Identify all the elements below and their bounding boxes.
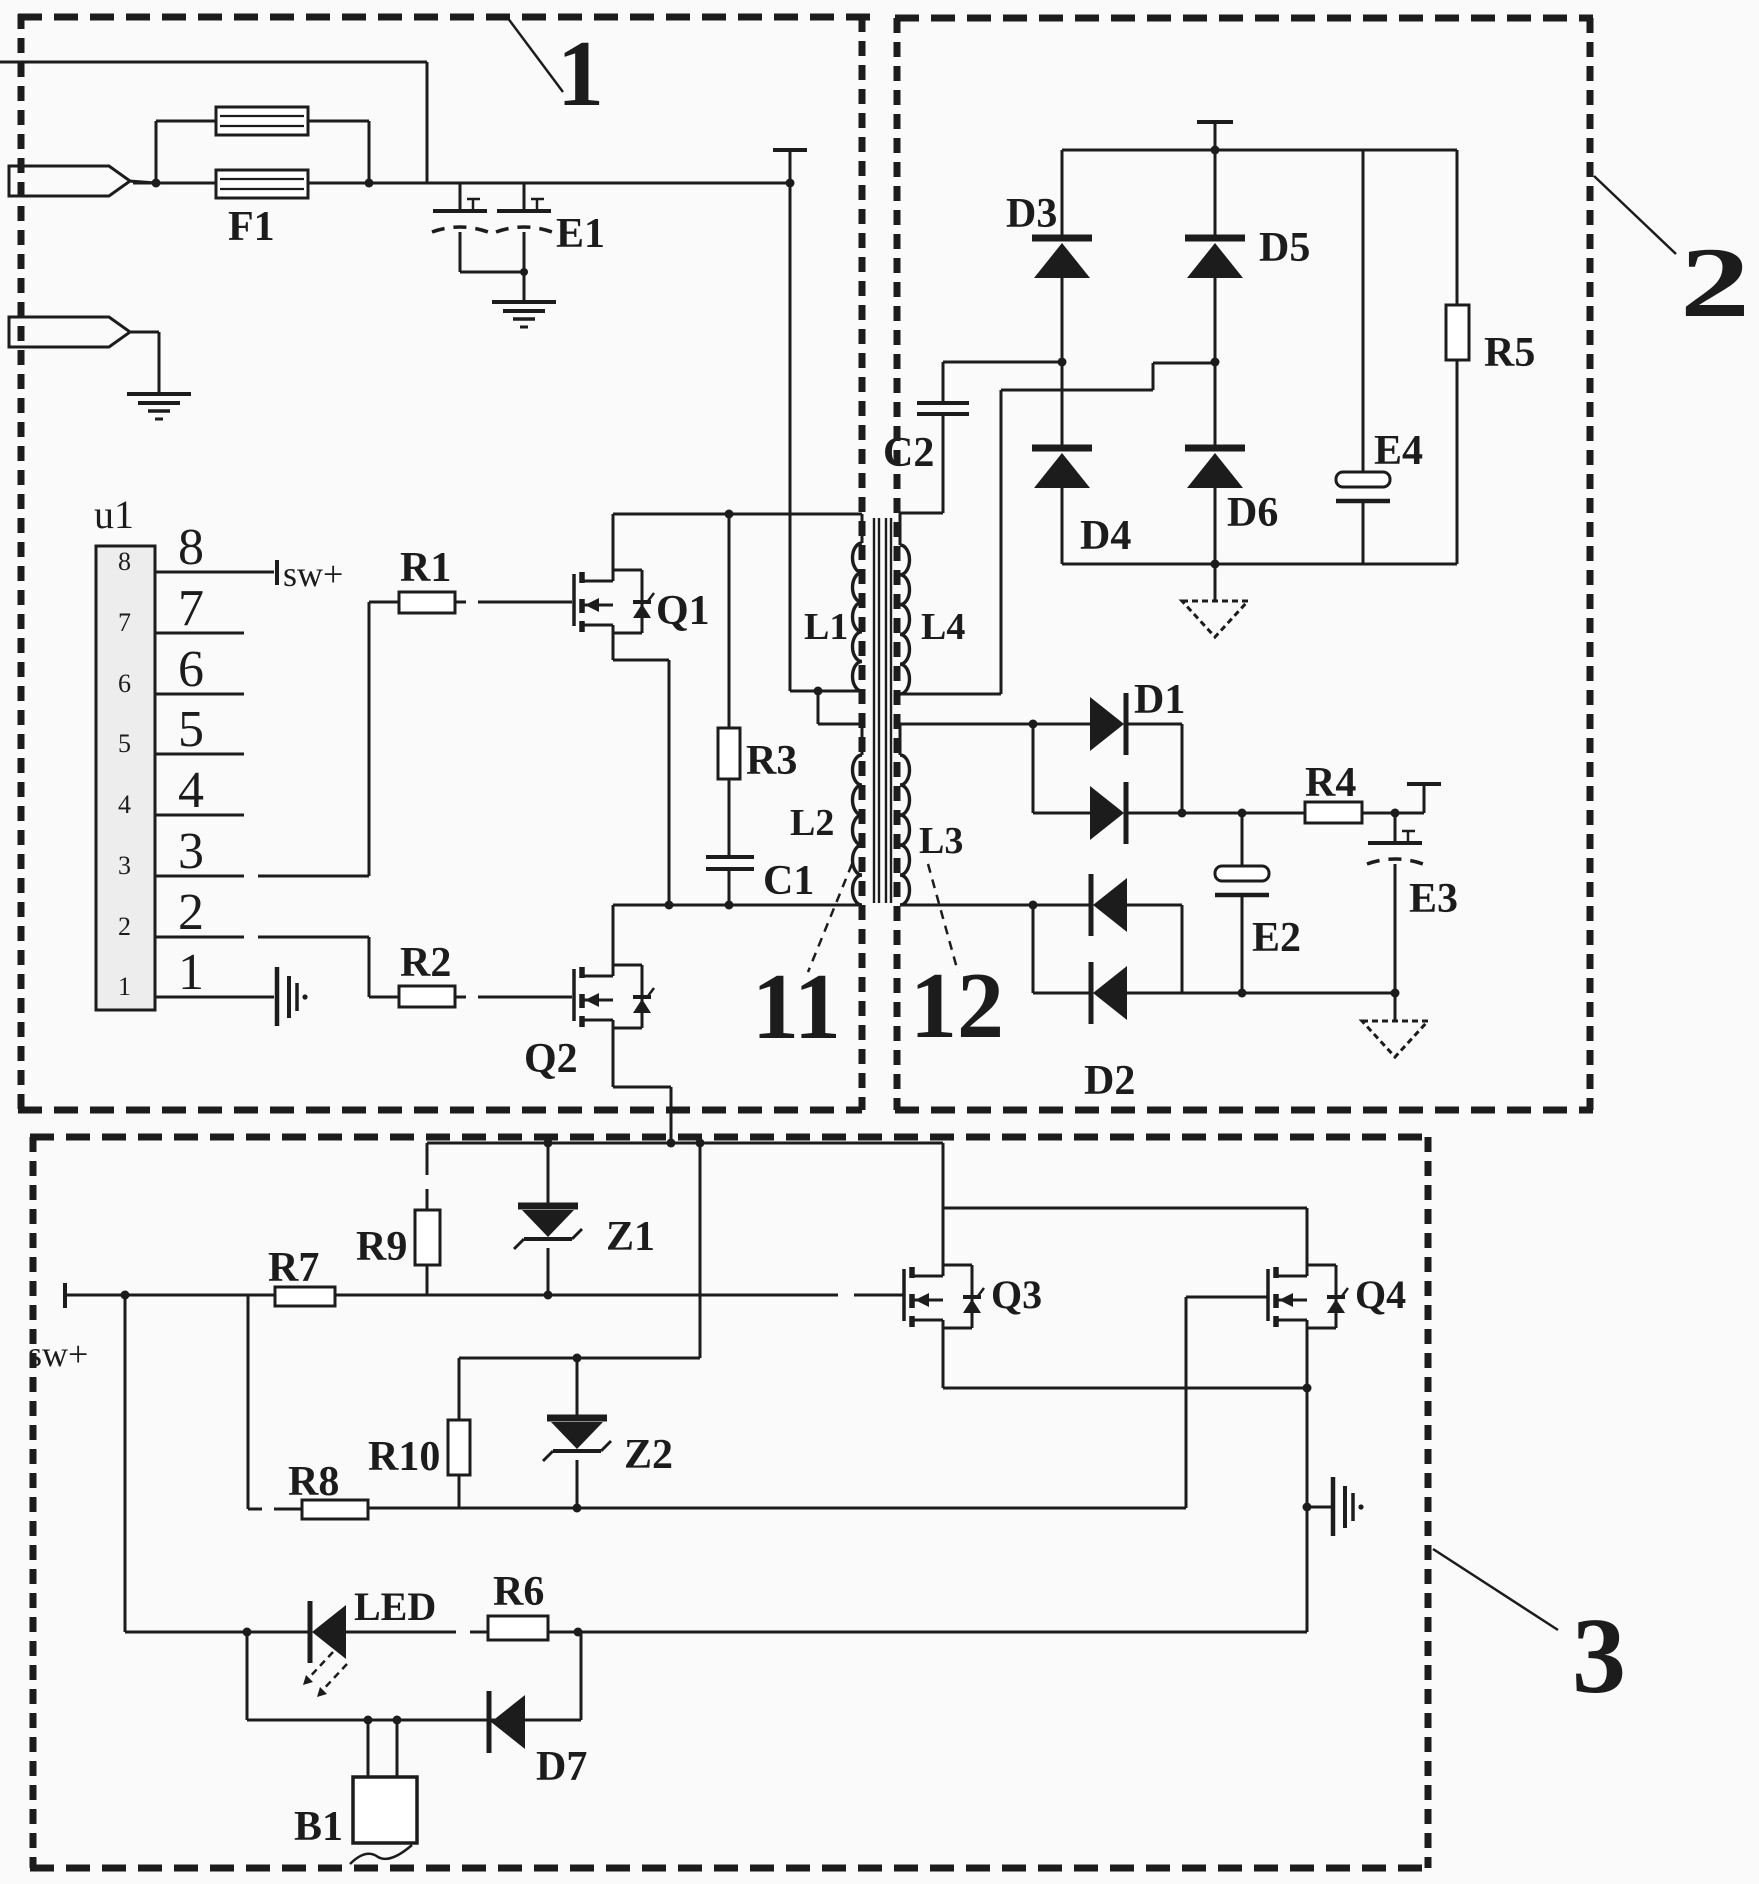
wire branch down to Z2 rail [699,1143,702,1358]
label E4 [1374,428,1423,474]
node C1 junction on midpoint rail [725,901,734,910]
wire Q2 source to box 3 [613,1020,671,1143]
svg-text:3: 3 [118,851,131,880]
diode D1 lower element [1033,782,1182,844]
label 12 with leader [910,864,1004,1058]
wire C2 to D3-D4 midpoint [943,361,1062,364]
wire secondary return rail [1182,992,1395,995]
svg-text:L3: L3 [919,820,963,862]
capacitor E2 filter electrolytic [1215,813,1269,993]
resistor R1 [369,592,572,613]
node B1 right lead junction [393,1716,402,1725]
inductor L2 primary lower winding [853,724,863,905]
battery B1 leads [368,1720,397,1777]
pin number 7 outside [178,580,204,637]
svg-text:R5: R5 [1484,330,1535,376]
svg-text:Q2: Q2 [524,1036,578,1082]
label D5 [1259,225,1310,271]
transistor Q2 MOSFET [574,965,654,1028]
frame box 2 (secondary rectifier) dashed border [895,18,1593,1110]
inductor L3 secondary lower winding [900,724,910,905]
terminal T secondary output terminal [1197,122,1233,150]
pin number 2 inside IC [118,912,131,941]
svg-text:12: 12 [910,954,1004,1058]
wire sw+ rail to R7 [65,1294,275,1297]
wire D7 loop left vertical [246,1632,249,1720]
wire R6 output rail to Q4 source [548,1631,1307,1634]
label C1 [763,858,814,904]
svg-text:5: 5 [178,701,204,758]
wire fuse parallel branch [156,121,369,183]
connector AC input neutral [9,317,159,394]
node B1 left lead junction [364,1716,373,1725]
fuse F1 lower element [216,170,308,198]
svg-text:D7: D7 [536,1744,587,1790]
node E3 bottom junction [1391,989,1400,998]
pin number 6 inside IC [118,669,131,698]
svg-text:R10: R10 [368,1434,440,1480]
wire node-A to Q3/Q4 drain rail [943,1143,1307,1208]
pin number 4 outside [178,762,204,819]
label R6 [493,1569,544,1615]
fuse F1 upper element [216,107,308,135]
node Z2 top junction [573,1354,582,1363]
ground open triangle ground below D6 [1182,564,1248,637]
svg-text:D6: D6 [1227,490,1278,536]
node D3-D4 midpoint [1058,358,1067,367]
LED indicator diode [310,1601,346,1663]
label R8 [288,1459,339,1505]
svg-text:F1: F1 [228,204,275,250]
svg-text:R7: R7 [268,1245,319,1291]
wire D1 branch verticals [1033,724,1182,813]
node ground tap junction [1303,1503,1312,1512]
node D1 input junction [1029,720,1038,729]
node D7 return junction [574,1628,583,1637]
node D2 input junction [1029,901,1038,910]
svg-text:6: 6 [178,641,204,698]
wire L4 bottom to D5 midpoint [900,363,1215,694]
frame box 1 (primary power stage) dashed border [18,14,870,1110]
resistor R3 snubber [718,514,740,857]
diode D7 [489,1691,525,1753]
label Q4 [1355,1272,1406,1317]
node E3 top junction [1391,809,1400,818]
wire Q1 source to midpoint [613,625,669,905]
wire U1 pin 6 lead [155,693,244,696]
capacitor C2 coupling [900,362,969,513]
svg-text:sw+: sw+ [28,1334,88,1374]
ground open triangle ground at secondary return [1362,993,1428,1057]
svg-text:2: 2 [178,884,204,941]
wire L3 bottom lead [900,904,1033,907]
wire secondary top rail [1062,149,1457,152]
svg-text:R1: R1 [400,545,451,591]
label LED [354,1584,436,1629]
inductor L1 primary upper winding [853,514,863,691]
LED light emission arrows [303,1652,347,1697]
svg-text:2: 2 [1680,227,1750,338]
svg-text:1: 1 [557,22,604,126]
label R7 [268,1245,319,1291]
wire U1 pin 5 lead [155,753,244,756]
label L1 [804,606,848,648]
node branch junction to Z2 rail [696,1139,705,1148]
svg-text:E3: E3 [1409,876,1458,922]
node Q1 source junction on midpoint rail [665,901,674,910]
label R4 [1305,760,1356,806]
wire Q1 drain to primary top rail [613,514,862,581]
svg-text:R2: R2 [400,940,451,986]
wire LED to R6 [346,1631,488,1634]
ground signal ground at pin 1 [277,967,308,1026]
label D4 [1080,513,1131,559]
label sw+ (box 3) [28,1334,88,1374]
resistor R5 bleeder [1446,150,1469,564]
frame box 3 (battery charge circuit) dashed border [30,1137,1431,1868]
ground earth ground at neutral input [127,394,191,419]
wire U1 pin 2 lead to R2 [155,937,369,997]
wire LED branch vertical [124,1295,127,1632]
svg-text:8: 8 [118,547,131,576]
pin number 3 outside [178,823,204,880]
label E1 [556,211,605,257]
label E3 [1409,876,1458,922]
diode D2 upper element [1033,874,1182,936]
resistor R7 [275,1287,335,1306]
node LED branch junction [121,1291,130,1300]
wire L1 bottom / center tap [790,690,862,693]
svg-text:D3: D3 [1006,191,1057,237]
label 3 with leader [1433,1549,1626,1716]
svg-text:L2: L2 [790,802,834,844]
resistor R6 [488,1616,548,1640]
wire secondary bottom rail [1062,563,1457,566]
svg-text:R3: R3 [746,738,797,784]
svg-text:Z2: Z2 [624,1432,673,1478]
zener diode Z2 [543,1358,611,1508]
diode D6 [1185,362,1245,564]
node Z1 top junction [544,1139,553,1148]
pin number 1 inside IC [118,972,131,1001]
battery B1 bottom lead squiggle [350,1845,412,1864]
transistor Q1 MOSFET [574,570,654,633]
pin number 3 inside IC [118,851,131,880]
svg-text:D1: D1 [1134,677,1185,723]
transformer core [874,518,891,903]
svg-text:C1: C1 [763,858,814,904]
capacitor E1 first electrolytic [432,183,488,272]
terminal sw+ at pin 8 [275,560,279,585]
svg-text:L4: L4 [921,606,965,648]
resistor R8 [248,1500,368,1519]
terminal sw+ battery positive [63,1283,67,1308]
capacitor E3 electrolytic [1367,813,1423,993]
node fuse merge junction [365,179,374,188]
svg-text:D5: D5 [1259,225,1310,271]
wire midpoint rail [613,904,862,907]
pin number 5 inside IC [118,729,131,758]
pin number 5 outside [178,701,204,758]
inductor L4 secondary upper winding [900,513,910,694]
svg-text:7: 7 [178,580,204,637]
label Q2 [524,1036,578,1082]
diode D4 [1032,362,1092,564]
node D5-D6 midpoint [1211,358,1220,367]
resistor R10 [448,1358,470,1508]
svg-text:5: 5 [118,729,131,758]
terminal T at R4 output [1395,784,1441,813]
wire top-left bus [0,62,427,183]
label E2 [1252,915,1301,961]
pin number 6 outside [178,641,204,698]
label D6 [1227,490,1278,536]
node terminal junction on top rail [1211,146,1220,155]
label R10 [368,1434,440,1480]
diode D5 [1185,150,1245,362]
svg-text:R8: R8 [288,1459,339,1505]
svg-text:D4: D4 [1080,513,1131,559]
svg-text:u1: u1 [94,492,134,537]
svg-text:sw+: sw+ [283,554,343,594]
node fuse split junction [152,179,161,188]
wire D7 loop right vertical [580,1632,583,1720]
svg-text:E4: E4 [1374,428,1423,474]
resistor R4 [1305,802,1395,823]
wire Q3 drain connection [942,1208,945,1276]
IC U1 controller body [96,546,155,1010]
label R5 [1484,330,1535,376]
svg-text:Q3: Q3 [991,1272,1042,1317]
transistor Q3 MOSFET [904,1265,984,1328]
svg-text:R6: R6 [493,1569,544,1615]
svg-text:7: 7 [118,608,131,637]
svg-text:Q1: Q1 [656,588,710,634]
node LED anode junction [243,1628,252,1637]
ground signal ground in box 3 [1307,1477,1364,1536]
node D1 output junction [1178,809,1187,818]
wire R7 output rail to Q3 gate [335,1294,904,1297]
node Z2 bottom junction [573,1504,582,1513]
label R3 [746,738,797,784]
label sw+ (pin 8) [283,554,343,594]
label Z1 [606,1214,655,1260]
wire L3 top lead [900,723,1033,726]
label u1 [94,492,134,537]
label 1 with leader [507,17,604,126]
label Z2 [624,1432,673,1478]
label L2 [790,802,834,844]
label D3 [1006,191,1057,237]
svg-text:L1: L1 [804,606,848,648]
battery B1 body [353,1777,417,1843]
diode D2 lower element [1033,962,1182,1024]
node center tap junction [814,687,823,696]
node E2 top junction [1238,809,1247,818]
svg-text:E2: E2 [1252,915,1301,961]
svg-text:4: 4 [178,762,204,819]
svg-text:1: 1 [178,944,204,1001]
label F1 [228,204,275,250]
label Q1 [656,588,710,634]
node Z1 bottom junction [544,1291,553,1300]
diode D3 [1032,150,1092,362]
pin number 2 outside [178,884,204,941]
label R2 [400,940,451,986]
svg-text:1: 1 [118,972,131,1001]
wire U1 pin 3 lead to R1 [155,602,369,876]
svg-text:R4: R4 [1305,760,1356,806]
svg-text:Q4: Q4 [1355,1272,1406,1317]
svg-text:B1: B1 [294,1804,343,1850]
wire Q2 drain to midpoint rail [612,905,615,976]
wire D2 branch verticals [1033,905,1182,993]
svg-text:E1: E1 [556,211,605,257]
svg-text:C2: C2 [883,430,934,476]
label D7 [536,1744,587,1790]
resistor R2 [369,986,572,1007]
connector AC input live [9,166,156,196]
wire DC bus to transformer center tap [789,183,792,691]
label C2 [883,430,934,476]
wire live input to fuse network [133,182,790,185]
zener diode Z1 [514,1143,582,1295]
wire Q4 source down to LED rail [1306,1320,1309,1632]
wire center tap to L2 top [818,691,862,724]
resistor R9 [415,1143,440,1295]
svg-text:8: 8 [178,519,204,576]
wire E1 bottom join [460,268,528,276]
pin number 8 inside IC [118,547,131,576]
capacitor C1 snubber [706,857,754,905]
svg-text:6: 6 [118,669,131,698]
label R1 [400,545,451,591]
svg-text:3: 3 [178,823,204,880]
wire Q3 source rail [943,1320,1307,1388]
wire U1 pin 1 lead [155,996,274,999]
terminal T bus terminal [773,150,807,183]
ground earth ground below E1 [492,302,556,327]
svg-text:4: 4 [118,790,131,819]
label D2 [1084,1058,1135,1104]
label 11 with leader [752,864,852,1059]
pin number 1 outside [178,944,204,1001]
wire LED rail left [125,1631,308,1634]
label L3 [919,820,963,862]
label B1 [294,1804,343,1850]
wire D7 rail [247,1719,581,1722]
wire U1 pin 4 lead [155,814,244,817]
wire node-A rail (Q2 source net) [427,1142,943,1145]
wire Z2 top rail [459,1357,700,1360]
svg-text:3: 3 [1572,1597,1626,1716]
wire U1 pin 7 lead [155,632,244,635]
diode D1 upper element [1033,693,1182,755]
node E2 bottom junction [1238,989,1247,998]
wire U1 pin 8 lead [155,571,274,574]
label Q3 [991,1272,1042,1317]
label D1 [1134,677,1185,723]
wire Q4 drain connection [1306,1208,1309,1276]
node Q4 source junction with Q3 rail [1303,1384,1312,1393]
label L4 [921,606,965,648]
node D6 junction on bottom rail [1211,560,1220,569]
wire R8 rail to Q4 gate branch [368,1507,1186,1510]
node R3 top junction [725,510,734,519]
pin number 8 outside [178,519,204,576]
wire R8 feed vertical [247,1295,250,1509]
wire Q4 gate feed [1186,1297,1268,1508]
svg-text:2: 2 [118,912,131,941]
label R9 [356,1224,407,1270]
node Q2 source junction [667,1139,676,1148]
svg-text:LED: LED [354,1584,436,1629]
svg-text:D2: D2 [1084,1058,1135,1104]
svg-text:Z1: Z1 [606,1214,655,1260]
transistor Q4 MOSFET [1268,1265,1348,1328]
svg-text:R9: R9 [356,1224,407,1270]
pin number 4 inside IC [118,790,131,819]
node bus junction at terminal [786,179,795,188]
wire D1 output rail [1182,812,1305,815]
svg-text:11: 11 [752,955,841,1059]
label 2 with leader [1594,176,1750,338]
pin number 7 inside IC [118,608,131,637]
capacitor E1 second electrolytic [496,183,552,302]
capacitor E4 output electrolytic [1336,150,1390,564]
